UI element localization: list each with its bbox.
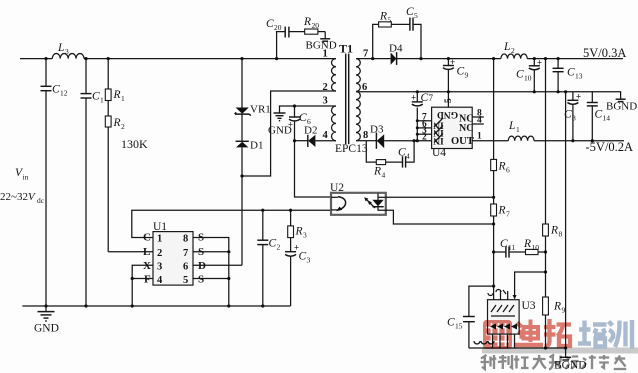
capacitor C10: [516, 58, 542, 92]
resistor R2: [105, 116, 125, 252]
svg-text:8: 8: [363, 130, 368, 141]
svg-text:GND: GND: [34, 323, 59, 335]
svg-text:S: S: [198, 274, 204, 286]
svg-text:U3: U3: [522, 300, 536, 312]
wire: cathode node to C15: [469, 286, 494, 316]
watermark gray slogan: [481, 355, 627, 370]
watermark char tuo: [544, 319, 571, 346]
svg-text:12: 12: [60, 89, 68, 98]
wire: secondary common line pin6 to BGND: [356, 92, 621, 99]
capacitor C4: [398, 141, 414, 168]
svg-text:C: C: [567, 67, 575, 79]
svg-text:10: 10: [524, 74, 532, 83]
diode D4: [389, 43, 501, 65]
svg-text:7: 7: [363, 49, 368, 60]
capacitor C5: [406, 6, 421, 59]
ground GND (bias): [268, 113, 292, 137]
U3 top stubs: [488, 290, 508, 300]
zener VR1: [235, 59, 271, 142]
label 22~32Vdc: [0, 191, 45, 205]
transformer T1 secondary coil 7-6-8: [356, 49, 368, 142]
svg-text:1: 1: [516, 125, 520, 134]
svg-text:R: R: [295, 226, 303, 238]
capacitor C7: [411, 92, 434, 141]
resistor R4: [366, 141, 402, 180]
svg-text:C: C: [500, 238, 508, 250]
svg-text:C: C: [266, 18, 274, 30]
wire: U1 pin6 drain: [193, 264, 242, 266]
label Vin: [15, 167, 29, 182]
svg-text:BGND: BGND: [606, 101, 637, 113]
svg-text:130K: 130K: [121, 137, 148, 151]
wire: BGND tie vertical: [565, 92, 567, 348]
inductor L3: [52, 42, 84, 59]
wire: U4 pin5 stub: [444, 92, 454, 107]
capacitor C3: [285, 243, 310, 307]
svg-text:OUT: OUT: [451, 136, 474, 147]
svg-text:in: in: [23, 173, 29, 182]
svg-text:C: C: [269, 238, 277, 250]
svg-text:+: +: [450, 57, 455, 67]
capacitor C11: [494, 238, 526, 258]
resistor R10: [523, 238, 546, 255]
transformer T1 bias coil 3-4: [323, 96, 337, 142]
svg-text:5: 5: [183, 275, 188, 286]
svg-text:L: L: [503, 41, 510, 53]
svg-text:D1: D1: [250, 140, 263, 152]
svg-text:2: 2: [121, 122, 125, 131]
optocoupler U2: [330, 182, 386, 215]
svg-text:4: 4: [477, 116, 482, 126]
watermark logo: [483, 320, 512, 349]
U3 interior marks: [490, 305, 517, 330]
svg-text:15: 15: [455, 322, 463, 331]
resistor R6: [491, 59, 510, 204]
svg-text:R: R: [523, 238, 531, 250]
svg-text:R: R: [373, 166, 381, 178]
svg-text:U2: U2: [330, 182, 344, 194]
capacitor C14: [587, 92, 610, 141]
label 130K: [121, 137, 148, 151]
svg-text:3: 3: [303, 231, 307, 240]
wire: bias pin3 to C6/GND: [280, 106, 337, 113]
svg-text:2: 2: [323, 82, 328, 93]
svg-text:2: 2: [422, 133, 427, 143]
svg-text:7: 7: [183, 248, 188, 259]
svg-text:5: 5: [444, 98, 454, 103]
svg-text:dc: dc: [37, 196, 45, 205]
svg-text:4: 4: [323, 130, 329, 141]
svg-text:5: 5: [414, 11, 418, 20]
svg-text:20: 20: [312, 21, 320, 30]
wire: U2 cathode jog to divider column: [378, 207, 494, 224]
svg-text:U1: U1: [153, 221, 167, 233]
svg-text:D4: D4: [389, 43, 403, 55]
svg-text:R: R: [379, 11, 387, 23]
svg-text:C: C: [516, 69, 524, 81]
svg-text:3: 3: [323, 96, 328, 107]
label 5V/0.3A: [583, 46, 626, 60]
svg-text:4: 4: [157, 275, 163, 286]
svg-text:3: 3: [157, 262, 162, 273]
capacitor C1: [81, 59, 105, 306]
svg-text:IN: IN: [433, 135, 444, 145]
svg-text:1: 1: [157, 234, 162, 245]
wire: U4 OUT / -5V rail: [472, 132, 624, 142]
U2 light arrows: [364, 197, 375, 208]
svg-text:C: C: [92, 91, 100, 103]
capacitor C2: [257, 210, 280, 306]
svg-text:14: 14: [603, 114, 611, 123]
svg-text:BGND: BGND: [306, 40, 337, 52]
svg-text:L: L: [57, 42, 64, 54]
svg-text:+: +: [288, 120, 293, 130]
wire: top input rail: [20, 58, 336, 60]
U2 LED: [372, 194, 385, 207]
resistor R7: [491, 204, 510, 286]
resistor R20: [303, 16, 325, 34]
wire: U1 pin1 control: [132, 210, 331, 237]
svg-text:8: 8: [559, 230, 563, 239]
svg-text:EPC13: EPC13: [335, 143, 368, 155]
capacitor C12: [41, 59, 68, 306]
capacitor C20: [266, 18, 305, 59]
svg-text:VR1: VR1: [250, 104, 271, 116]
svg-text:C: C: [595, 109, 603, 121]
svg-text:2: 2: [511, 46, 515, 55]
svg-text:R: R: [498, 161, 506, 173]
resistor R9: [543, 297, 566, 348]
U2 phototransistor: [331, 197, 346, 212]
diode D3: [356, 124, 432, 149]
svg-text:1: 1: [100, 96, 104, 105]
wire: bottom input rail: [22, 305, 290, 307]
svg-text:8: 8: [183, 234, 188, 245]
capacitor C8: [564, 92, 581, 141]
svg-text:6: 6: [183, 262, 188, 273]
wire: U1 pin2 line-sense: [108, 251, 153, 253]
wire: secondary pin7 to D4: [356, 58, 391, 60]
svg-text:C: C: [398, 147, 406, 159]
resistor R8: [543, 59, 563, 297]
svg-text:22~32V: 22~32V: [0, 191, 36, 203]
svg-text:D2: D2: [304, 125, 317, 137]
ground BGND (bottom): [554, 348, 587, 372]
svg-text:9: 9: [562, 306, 566, 315]
watermark: [481, 319, 638, 370]
inductor L2: [501, 41, 623, 59]
svg-text:C: C: [52, 84, 60, 96]
svg-text:4: 4: [382, 171, 386, 180]
IC U1: [143, 221, 206, 286]
transformer T1 primary coil 1-2: [323, 49, 337, 94]
wire: U4 input pin stubs: [417, 113, 431, 143]
svg-text:R: R: [303, 16, 311, 28]
resistor R3: [288, 210, 307, 252]
svg-text:C: C: [421, 92, 429, 104]
svg-text:R: R: [553, 301, 561, 313]
svg-text:C: C: [447, 317, 455, 329]
svg-text:6: 6: [506, 166, 510, 175]
wire: bias node down to U2 collector: [295, 141, 332, 197]
inductor L1: [508, 120, 534, 141]
svg-text:C: C: [406, 6, 414, 18]
svg-text:5V/0.3A: 5V/0.3A: [583, 46, 626, 60]
capacitor C9: [443, 57, 469, 92]
svg-text:L: L: [508, 120, 515, 132]
svg-text:2: 2: [157, 248, 162, 259]
watermark char pei: [578, 321, 607, 347]
svg-text:R: R: [498, 205, 506, 217]
transformer T1 core: [339, 42, 353, 145]
svg-text:20: 20: [274, 23, 282, 32]
svg-text:D3: D3: [370, 124, 384, 136]
svg-text:X: X: [143, 260, 151, 272]
wire: U1 source pins: [193, 238, 229, 307]
svg-text:R: R: [113, 117, 121, 129]
svg-text:13: 13: [575, 72, 583, 81]
svg-text:C: C: [299, 112, 307, 124]
watermark char xun: [609, 320, 633, 349]
wire: U1 pin3 pin4 to ground rail: [132, 265, 153, 306]
svg-text:1: 1: [477, 132, 482, 142]
U3 bottom pins: [474, 334, 515, 348]
svg-text:1: 1: [323, 49, 328, 60]
capacitor C6: [288, 106, 311, 141]
diode D1: [236, 140, 264, 266]
label -5V/0.2A: [586, 140, 634, 154]
svg-text:U4: U4: [432, 147, 446, 159]
label EPC13: [335, 143, 368, 155]
svg-text:T1: T1: [339, 42, 353, 56]
svg-text:+: +: [576, 92, 581, 102]
svg-text:3: 3: [307, 256, 311, 265]
svg-text:4: 4: [406, 152, 410, 161]
svg-text:C: C: [299, 251, 307, 263]
svg-text:R: R: [550, 225, 558, 237]
resistor R5: [373, 11, 410, 59]
capacitor C13: [553, 59, 583, 92]
svg-text:C: C: [457, 66, 465, 78]
watermark char di: [514, 320, 543, 346]
capacitor C15: [447, 317, 475, 349]
svg-text:11: 11: [508, 243, 515, 252]
ground BGND (output common): [606, 99, 637, 112]
resistor R1: [105, 59, 125, 116]
svg-text:7: 7: [429, 93, 434, 103]
svg-text:9: 9: [465, 71, 469, 80]
diode D2: [295, 125, 337, 148]
svg-text:R: R: [113, 89, 121, 101]
IC U3: [488, 300, 536, 334]
svg-text:D: D: [198, 260, 206, 272]
svg-text:F: F: [144, 274, 151, 286]
svg-text:GND: GND: [437, 109, 458, 119]
svg-text:+: +: [537, 58, 542, 68]
wire: U2 anode to feedback node: [386, 196, 494, 198]
svg-text:5: 5: [388, 16, 392, 25]
svg-text:7: 7: [506, 210, 510, 219]
svg-text:10: 10: [532, 243, 540, 252]
ground GND (input): [34, 306, 59, 335]
watermark gray band: [482, 348, 638, 354]
svg-text:8: 8: [572, 114, 576, 123]
svg-text:2: 2: [277, 243, 281, 252]
svg-text:3: 3: [65, 47, 69, 56]
IC U4: [432, 107, 474, 159]
svg-text:NC: NC: [459, 123, 473, 134]
svg-text:+: +: [411, 93, 416, 103]
wire: reference to U3: [513, 272, 546, 300]
wire: BGND bottom rail: [469, 347, 566, 349]
ground BGND (snubber): [306, 32, 337, 52]
svg-text:1: 1: [121, 94, 125, 103]
wire: U4 NC stubs: [472, 109, 484, 126]
wire: clamp to primary pin2: [242, 91, 336, 176]
